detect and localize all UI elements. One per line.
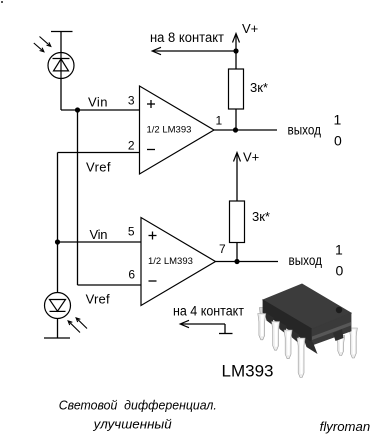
junction	[55, 239, 60, 244]
far pin F1	[337, 336, 345, 356]
wire output 1	[214, 129, 277, 131]
wire	[57, 153, 59, 294]
svg-text:3к*: 3к*	[250, 80, 268, 95]
near pin A	[258, 314, 266, 340]
light arrows into D2	[68, 318, 87, 333]
svg-text:на 4 контакт: на 4 контакт	[173, 304, 244, 319]
resistor R2 3k	[230, 154, 245, 262]
svg-text:1/2 LM393: 1/2 LM393	[148, 256, 193, 267]
svg-text:3к*: 3к*	[252, 209, 270, 224]
svg-text:2: 2	[128, 139, 135, 153]
wire	[60, 79, 62, 111]
wire Vin1 row	[61, 109, 140, 111]
svg-text:Vin: Vin	[90, 227, 108, 242]
IC photo LM393 DIP-8	[258, 284, 358, 378]
light arrows into D1	[34, 37, 51, 52]
svg-text:3: 3	[128, 94, 135, 108]
svg-text:Vref: Vref	[86, 159, 111, 174]
far pin F2	[349, 328, 357, 358]
wire	[57, 319, 59, 339]
wire	[77, 110, 79, 285]
junction	[234, 259, 239, 264]
svg-text:V+: V+	[242, 21, 258, 36]
svg-text:Vin: Vin	[88, 94, 108, 109]
svg-text:Vref: Vref	[86, 292, 110, 307]
svg-text:1: 1	[334, 112, 342, 128]
svg-text:на 8 контакт: на 8 контакт	[150, 30, 224, 45]
svg-text:0: 0	[336, 263, 344, 279]
V+ arrow (top)	[233, 34, 240, 43]
svg-text:Световой дифференциал.: Световой дифференциал.	[59, 398, 217, 413]
svg-text:0: 0	[334, 133, 342, 149]
wire	[60, 32, 62, 54]
svg-text:1: 1	[216, 114, 223, 128]
right face stripe	[312, 322, 351, 340]
svg-text:V+: V+	[243, 150, 259, 165]
svg-text:выход: выход	[288, 123, 322, 138]
near pin D	[297, 338, 305, 378]
junction	[75, 107, 80, 112]
near pin C	[284, 330, 292, 359]
svg-text:выход: выход	[289, 253, 323, 268]
wire pin6 row	[78, 284, 142, 286]
svg-text:1: 1	[335, 242, 343, 258]
ground bar	[44, 337, 70, 339]
wire output 7	[216, 261, 279, 263]
body front face	[263, 300, 312, 345]
svg-text:flyroman: flyroman	[320, 419, 371, 434]
corner speck	[1, 1, 3, 3]
wire pin5 row	[58, 241, 142, 243]
svg-text:улучшенный: улучшенный	[93, 417, 172, 432]
op-amp U1B (1/2 LM393)	[141, 218, 216, 306]
svg-text:6: 6	[128, 268, 135, 282]
photodiode D1	[48, 53, 74, 79]
svg-text:1/2 LM393: 1/2 LM393	[147, 125, 192, 136]
wire to pin 4 arrow	[180, 320, 232, 333]
molding wedges between pins	[265, 312, 274, 325]
V+ arrow (bottom)	[234, 153, 241, 162]
notch dot	[336, 307, 342, 313]
resistor R1 3k	[229, 35, 244, 130]
svg-text:LM393: LM393	[222, 362, 274, 381]
wire pin2 row	[58, 152, 141, 154]
photodiode D2	[45, 293, 71, 319]
svg-text:5: 5	[128, 225, 135, 239]
body right face	[312, 313, 351, 345]
svg-text:7: 7	[219, 242, 226, 256]
op-amp U1A (1/2 LM393)	[140, 86, 215, 174]
wire to pin 8 arrow	[152, 47, 238, 54]
near pin B	[272, 322, 280, 351]
far pin nub	[260, 308, 266, 318]
node VCC terminal bar (top of photodiode D1)	[51, 31, 73, 33]
junction	[233, 127, 238, 132]
body top face	[263, 284, 351, 329]
